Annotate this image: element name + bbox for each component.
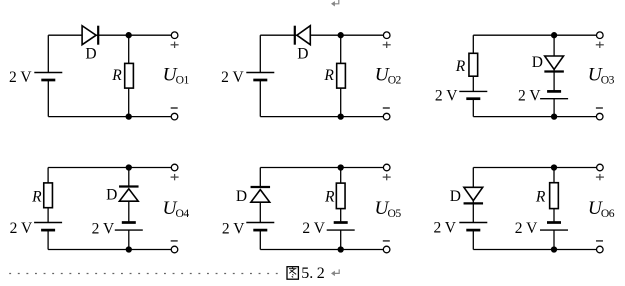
svg-text:R: R [455, 58, 466, 75]
svg-text:2 V: 2 V [92, 220, 115, 237]
svg-text:R: R [324, 189, 335, 206]
svg-text:O2: O2 [388, 73, 402, 86]
svg-text:D: D [106, 187, 117, 204]
svg-text:2 V: 2 V [435, 88, 458, 105]
svg-text:O4: O4 [176, 207, 190, 220]
svg-text:R: R [535, 189, 546, 206]
svg-text:O1: O1 [176, 73, 190, 86]
svg-text:2 V: 2 V [9, 69, 32, 86]
svg-text:D: D [450, 188, 461, 205]
svg-text:O6: O6 [601, 207, 615, 220]
svg-text:2: 2 [317, 265, 325, 282]
svg-text:2 V: 2 V [222, 221, 245, 238]
svg-text:2 V: 2 V [515, 220, 538, 237]
svg-text:R: R [323, 67, 334, 84]
svg-text:5.: 5. [301, 265, 313, 282]
svg-text:D: D [297, 46, 308, 63]
svg-text:2 V: 2 V [10, 220, 33, 237]
svg-text:D: D [236, 188, 247, 205]
svg-text:2 V: 2 V [433, 220, 456, 237]
svg-text:R: R [111, 67, 122, 84]
svg-text:2 V: 2 V [221, 69, 244, 86]
svg-text:O3: O3 [601, 73, 615, 86]
svg-text:2 V: 2 V [302, 220, 325, 237]
svg-text:D: D [532, 54, 543, 71]
svg-text:D: D [85, 46, 96, 63]
svg-text:R: R [31, 188, 42, 205]
svg-text:2 V: 2 V [518, 88, 541, 105]
svg-text:O5: O5 [388, 207, 402, 220]
